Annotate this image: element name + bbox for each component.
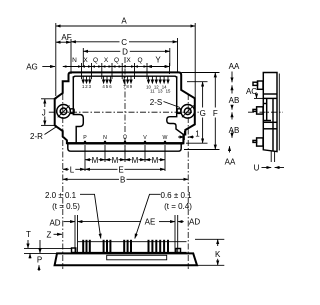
body inner wall right (below hat) xyxy=(167,76,184,143)
right hole xyxy=(182,105,194,117)
inner hat line xyxy=(73,76,176,78)
svg-text:2-S: 2-S xyxy=(150,98,162,107)
line behind pins xyxy=(78,241,187,243)
svg-text:13: 13 xyxy=(158,89,163,94)
centerline vertical module center xyxy=(124,57,126,154)
top pins group 3 (7,8,9) xyxy=(123,77,132,84)
dim AE xyxy=(78,215,178,252)
dim D xyxy=(83,48,170,66)
svg-text:AC: AC xyxy=(246,87,257,96)
svg-text:11: 11 xyxy=(150,89,155,94)
bottom lip xyxy=(68,144,181,152)
svg-text:M: M xyxy=(112,156,119,165)
svg-text:M: M xyxy=(132,156,139,165)
dim E xyxy=(85,168,165,170)
svg-text:N: N xyxy=(72,57,77,64)
svg-text:(t = 0.5): (t = 0.5) xyxy=(52,202,80,211)
dim 1 xyxy=(178,131,194,140)
svg-text:W: W xyxy=(163,135,168,141)
svg-text:T: T xyxy=(26,230,31,239)
svg-text:AE: AE xyxy=(145,218,156,227)
left tab front xyxy=(72,248,76,253)
dim M x4 xyxy=(85,159,165,161)
svg-text:Q: Q xyxy=(137,57,142,64)
centerline horizontal through mounting holes xyxy=(48,111,202,113)
leader 0.6 xyxy=(135,194,161,238)
slab recess xyxy=(107,255,167,259)
case top line xyxy=(72,252,187,254)
svg-text:A: A xyxy=(121,17,127,26)
svg-text:AG: AG xyxy=(26,63,38,72)
dim J xyxy=(41,99,57,126)
svg-text:M: M xyxy=(92,156,99,165)
dim AB lower xyxy=(231,112,233,137)
svg-text:J: J xyxy=(42,109,46,118)
pin extension lines bottom xyxy=(85,145,165,171)
svg-text:AB: AB xyxy=(229,96,240,105)
body bottom edge emphasis xyxy=(67,142,183,144)
svg-text:1: 1 xyxy=(195,130,200,139)
dim AD right xyxy=(178,221,184,223)
svg-text:AD: AD xyxy=(49,219,60,228)
bottom pin marks xyxy=(84,141,166,145)
svg-text:Q: Q xyxy=(114,57,119,64)
side view centerline xyxy=(248,111,283,113)
side pin block bottom xyxy=(253,138,263,146)
svg-text:AD: AD xyxy=(189,218,200,227)
svg-text:B: B xyxy=(120,175,125,184)
dim AG leader xyxy=(42,66,55,68)
side pin block middle xyxy=(253,107,263,114)
svg-text:AB: AB xyxy=(229,126,240,135)
right tab xyxy=(177,109,181,114)
side view body xyxy=(263,73,277,152)
svg-text:P: P xyxy=(37,256,42,265)
dim AA bottom xyxy=(229,146,231,152)
right mounting ear boss xyxy=(181,105,195,119)
dim C xyxy=(71,38,178,72)
svg-text:X: X xyxy=(83,57,88,64)
svg-text:Q: Q xyxy=(93,57,98,64)
svg-text:M: M xyxy=(152,156,159,165)
side pin block top xyxy=(253,81,263,89)
svg-text:U: U xyxy=(254,164,260,173)
dim F xyxy=(182,73,220,150)
dim P xyxy=(39,240,40,271)
svg-text:Z: Z xyxy=(47,231,52,240)
baseplate slab xyxy=(55,253,197,265)
svg-text:X: X xyxy=(126,57,131,64)
dim U xyxy=(262,167,285,169)
svg-text:0.6 ± 0.1: 0.6 ± 0.1 xyxy=(161,191,193,200)
left hole xyxy=(58,105,70,117)
top pins group 4 (10-15) xyxy=(147,77,169,84)
dim B xyxy=(63,178,188,180)
svg-text:D: D xyxy=(122,48,128,57)
top pins group 2 (4,5,6) xyxy=(103,77,112,84)
dim L xyxy=(63,168,85,170)
body inner wall left (below hat) xyxy=(73,76,83,143)
svg-text:AA: AA xyxy=(225,158,236,167)
dim A xyxy=(56,23,195,98)
svg-text:V: V xyxy=(143,135,147,141)
svg-text:(t = 0.4): (t = 0.4) xyxy=(164,202,192,211)
front pins xyxy=(82,240,169,253)
svg-text:G: G xyxy=(200,109,206,118)
svg-text:P: P xyxy=(83,135,87,141)
svg-text:2-R: 2-R xyxy=(30,132,43,141)
side view bottom ext lines xyxy=(271,152,274,163)
left mounting ear boss xyxy=(57,105,71,119)
dim AB upper xyxy=(231,85,233,109)
dim K xyxy=(195,239,224,265)
svg-text:AA: AA xyxy=(229,62,240,71)
top pins group 1 (1,2,3) xyxy=(82,77,91,84)
svg-text:F: F xyxy=(213,109,218,118)
centerline vertical left hole (B ext) xyxy=(62,94,64,269)
svg-text:AF: AF xyxy=(61,33,71,42)
svg-text:Y: Y xyxy=(155,56,161,65)
svg-text:2.0 ± 0.1: 2.0 ± 0.1 xyxy=(45,191,77,200)
body outline top view (outer) xyxy=(55,72,195,143)
svg-text:L: L xyxy=(70,165,75,174)
dim AF xyxy=(56,39,71,74)
leader 2.0 xyxy=(80,194,101,238)
left tab xyxy=(70,109,74,114)
svg-text:15: 15 xyxy=(166,89,171,94)
svg-text:N: N xyxy=(103,135,107,141)
dim G xyxy=(186,82,208,144)
svg-text:K: K xyxy=(215,250,221,259)
centerline vertical right hole (B ext) xyxy=(187,94,189,269)
right tab front xyxy=(176,249,181,253)
svg-text:E: E xyxy=(118,165,123,174)
svg-text:X: X xyxy=(104,57,109,64)
pin pitch chain N X Q X Q X Q Y xyxy=(63,63,170,79)
svg-text:C: C xyxy=(121,38,127,47)
svg-text:U: U xyxy=(123,135,127,141)
